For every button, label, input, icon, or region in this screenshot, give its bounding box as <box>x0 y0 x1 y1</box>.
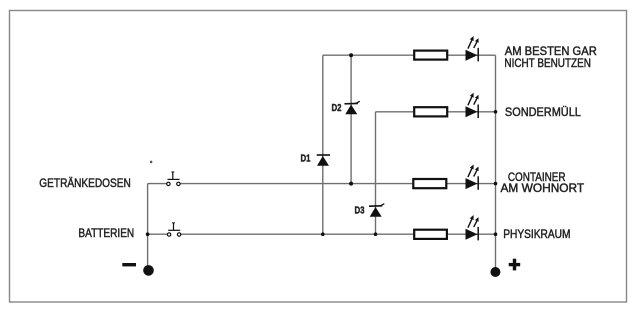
wire branch4 right segment <box>181 233 496 235</box>
wire right bus vertical <box>495 55 497 268</box>
wire branch3 right segment <box>180 183 496 185</box>
net label GETRAENKEDOSEN <box>39 176 131 190</box>
wire branch4 left segment <box>148 233 168 235</box>
svg-text:SONDERMÜLL: SONDERMÜLL <box>505 105 581 119</box>
wire D2 vertical <box>350 55 352 183</box>
LED LED3 <box>466 164 479 189</box>
wire branch2 horizontal <box>376 111 496 113</box>
wire branch3 left segment <box>148 183 167 185</box>
net label AM BESTEN GAR NICHT BENUTZEN <box>504 44 597 70</box>
svg-text:PHYSIKRAUM: PHYSIKRAUM <box>503 227 570 241</box>
svg-text:D2: D2 <box>332 103 342 114</box>
svg-text:AM WOHNORT: AM WOHNORT <box>501 181 585 195</box>
wire D3 vertical <box>375 112 377 234</box>
minus sign <box>122 263 136 266</box>
label D2 <box>332 103 342 114</box>
svg-text:BATTERIEN: BATTERIEN <box>78 226 134 240</box>
junction branch4 D3 <box>374 232 378 236</box>
minus terminal node <box>143 265 154 276</box>
svg-text:D1: D1 <box>301 154 311 165</box>
LED LED2 <box>466 93 479 118</box>
LED LED1 <box>466 36 479 61</box>
diode D2 <box>345 101 360 114</box>
resistor R3 <box>413 179 446 188</box>
diode D1 <box>317 155 330 166</box>
net label BATTERIEN <box>78 226 134 240</box>
resistor R4 <box>414 230 447 239</box>
svg-text:GETRÄNKEDOSEN: GETRÄNKEDOSEN <box>39 176 131 190</box>
label D1 <box>301 154 311 165</box>
push-button switch S1 <box>167 172 180 186</box>
junction branch4 left bus <box>146 232 150 236</box>
junction branch3 D2 <box>349 182 353 186</box>
resistor R2 <box>414 107 447 116</box>
diode D3 <box>369 204 384 217</box>
push-button switch S2 <box>167 223 180 236</box>
wire left bus vertical <box>147 184 149 266</box>
junction branch4 right bus <box>494 232 498 236</box>
svg-text:NICHT BENUTZEN: NICHT BENUTZEN <box>504 56 591 70</box>
net label PHYSIKRAUM <box>503 227 570 241</box>
resistor R1 <box>414 51 447 60</box>
junction branch4 D1 <box>321 232 325 236</box>
net label SONDERMUELL <box>505 105 581 119</box>
svg-text:D3: D3 <box>355 206 365 217</box>
junction branch3 right bus <box>494 182 498 186</box>
plus sign <box>509 259 521 271</box>
junction branch1 D2 <box>349 53 353 57</box>
wire branch1 horizontal <box>323 54 496 56</box>
plus terminal node <box>490 267 500 277</box>
junction branch2 right bus <box>494 110 498 114</box>
LED LED4 <box>466 215 479 240</box>
wire D1 vertical <box>322 55 324 234</box>
net label CONTAINER AM WOHNORT <box>501 170 585 195</box>
label D3 <box>355 206 365 217</box>
